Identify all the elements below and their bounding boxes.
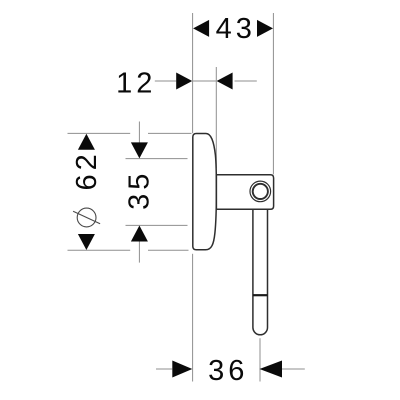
dim 12 arrow left (176, 73, 192, 90)
dim 36 arrow right (260, 361, 283, 378)
arm (216, 175, 273, 210)
dim 35 arrow top (131, 142, 148, 158)
dim 43 arrow left (193, 20, 209, 37)
knob inner ring (253, 184, 268, 199)
knob outer ring (250, 181, 271, 202)
dim 62 arrow top (78, 134, 95, 150)
extension line right (arm tip) (272, 13, 274, 174)
rod (253, 209, 268, 335)
svg-text:35: 35 (124, 170, 156, 210)
svg-text:43: 43 (216, 13, 256, 45)
extension line 35 top (126, 158, 188, 160)
extension line plate depth right (215, 67, 217, 168)
svg-text:62: 62 (71, 150, 103, 190)
svg-text:12: 12 (116, 67, 156, 99)
svg-text:36: 36 (208, 355, 248, 387)
dim 35 arrow bottom (131, 226, 148, 242)
dim line 12 (155, 80, 176, 82)
wall plate (193, 134, 217, 250)
dim line 36 (156, 368, 172, 370)
extension line rod axis (259, 338, 261, 381)
dim 12 arrow right (217, 73, 233, 90)
extension line wall plane bottom (192, 254, 194, 382)
dim 43 arrow right (257, 20, 273, 37)
dim 36 arrow left (172, 361, 192, 378)
rod joint line (253, 294, 268, 296)
extension line plate bottom level (68, 249, 131, 251)
extension line plate top level (68, 132, 131, 134)
dim 35 stub top (138, 122, 140, 144)
dim 35 stub bottom (138, 241, 140, 263)
extension line 35 bottom (126, 224, 188, 226)
dim 62 arrow bottom (78, 234, 95, 250)
extension line left (wall plane, top) (192, 13, 194, 133)
diameter symbol (73, 208, 100, 227)
